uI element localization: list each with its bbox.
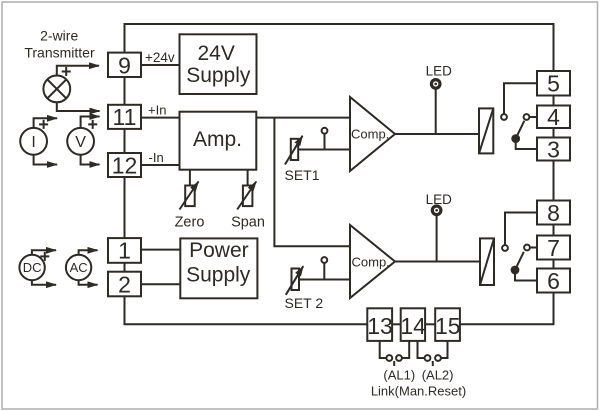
svg-text:13: 13 xyxy=(367,313,393,339)
wire 1 to 2 xyxy=(124,263,126,272)
potentiometer SET1 xyxy=(291,139,298,160)
wire LED2 stem xyxy=(436,216,438,262)
wire 5-4 link xyxy=(553,96,555,106)
block 24V Supply U1 xyxy=(180,34,257,94)
wire 8-7 link xyxy=(553,225,555,236)
relay coil K1 xyxy=(479,108,493,153)
svg-text:Zero: Zero xyxy=(175,215,205,231)
block Power Supply U3 xyxy=(180,238,257,298)
svg-text:Link(Man.Reset): Link(Man.Reset) xyxy=(371,384,466,399)
svg-text:Power: Power xyxy=(189,239,249,262)
terminal 3 xyxy=(537,138,570,161)
relay 1 contact to 4 xyxy=(524,114,530,120)
svg-text:Comp.: Comp. xyxy=(351,126,389,141)
terminal 4 xyxy=(537,106,570,129)
transmitter + sign xyxy=(62,67,71,76)
V + sign xyxy=(88,120,97,129)
wire branch to comparator 2 xyxy=(274,118,350,247)
switch AL1 under 13/14 xyxy=(380,341,387,358)
potentiometer Span xyxy=(247,170,249,186)
terminal 9 xyxy=(108,53,141,77)
relay coil K2 xyxy=(480,238,494,285)
block Amp U2 xyxy=(180,112,257,170)
svg-text:12: 12 xyxy=(112,152,138,178)
svg-text:7: 7 xyxy=(547,235,560,261)
I + sign xyxy=(39,120,48,129)
terminal 5 xyxy=(537,71,570,96)
svg-text:SET1: SET1 xyxy=(285,167,320,183)
svg-text:V: V xyxy=(75,134,86,151)
svg-text:LED: LED xyxy=(426,64,453,79)
wire 15 to terminal 6 xyxy=(460,293,554,325)
voltage source V xyxy=(67,128,94,155)
svg-text:DC: DC xyxy=(23,260,42,275)
terminal 12 xyxy=(108,153,141,177)
AC source xyxy=(66,255,91,280)
LED1 xyxy=(430,78,442,90)
terminal 13 xyxy=(367,308,392,341)
svg-text:11: 11 xyxy=(113,104,137,130)
svg-text:(AL1): (AL1) xyxy=(383,368,415,383)
terminal 8 xyxy=(537,201,570,225)
svg-text:4: 4 xyxy=(547,104,560,130)
relay 2 contact to 7 xyxy=(524,245,530,251)
wire bottom bus 2 to 13 xyxy=(125,296,368,324)
wire 1 to power supply xyxy=(141,249,180,251)
terminal 15 xyxy=(435,308,460,341)
node SET1 tap xyxy=(322,128,328,134)
svg-text:Span: Span xyxy=(231,215,265,231)
svg-text:Supply: Supply xyxy=(186,264,251,287)
potentiometer Zero xyxy=(189,170,191,186)
svg-text:AC: AC xyxy=(70,260,88,275)
svg-text:8: 8 xyxy=(547,200,560,226)
svg-text:-In: -In xyxy=(149,150,164,165)
terminal 2 xyxy=(108,272,141,297)
svg-text:Supply: Supply xyxy=(186,64,251,87)
svg-text:2-wire: 2-wire xyxy=(40,27,78,43)
DC + sign xyxy=(40,252,49,261)
wire 11 to 12 xyxy=(124,129,126,153)
svg-text:14: 14 xyxy=(400,313,426,339)
wire 13 to 14 xyxy=(392,323,401,325)
svg-text:24V: 24V xyxy=(198,42,235,65)
terminal 7 xyxy=(537,236,570,260)
relay 2 contact to 8 xyxy=(502,245,508,251)
svg-text:Comp.: Comp. xyxy=(352,255,390,270)
svg-text:2: 2 xyxy=(118,271,131,297)
relay 1 contact to 5 xyxy=(501,114,507,120)
wire comparator 1 output to relay 1 xyxy=(395,133,479,135)
wire 11 to Amp (+In) xyxy=(141,117,180,119)
wire top bus from terminal 9 to terminal 5 xyxy=(125,24,554,71)
svg-text:+24v: +24v xyxy=(145,50,175,65)
svg-text:Amp.: Amp. xyxy=(193,128,242,151)
svg-text:I: I xyxy=(31,134,35,151)
svg-text:6: 6 xyxy=(547,268,560,294)
LED2 xyxy=(431,204,443,216)
current source I xyxy=(20,128,47,155)
wire 12 to Amp (-In) xyxy=(141,164,180,166)
wire 12 to 1 xyxy=(124,177,126,238)
svg-text:LED: LED xyxy=(426,192,453,207)
2-wire transmitter symbol xyxy=(43,76,70,103)
node SET2 tap xyxy=(321,257,327,263)
wire comparator 2 output to relay 2 xyxy=(395,261,480,263)
svg-text:Transmitter: Transmitter xyxy=(24,45,95,61)
svg-text:5: 5 xyxy=(547,71,560,97)
terminal 11 xyxy=(108,105,141,129)
wire 4-3 link xyxy=(553,128,555,138)
relay 2 pole to 6 xyxy=(512,267,519,274)
wire 7-6 link xyxy=(553,260,555,269)
svg-text:3: 3 xyxy=(547,136,560,162)
svg-text:1: 1 xyxy=(118,238,131,264)
DC source xyxy=(19,255,44,280)
terminal 6 xyxy=(537,269,570,293)
svg-text:(AL2): (AL2) xyxy=(422,368,454,383)
potentiometer SET2 xyxy=(292,269,300,291)
wire Amp out to comparator 1 xyxy=(256,117,350,119)
svg-text:+In: +In xyxy=(148,103,166,118)
svg-text:SET 2: SET 2 xyxy=(285,295,324,311)
wire 3-8 link xyxy=(553,161,555,201)
terminal 1 xyxy=(108,238,141,263)
svg-text:15: 15 xyxy=(435,313,461,339)
terminal 14 xyxy=(401,308,425,341)
wire 14 to 15 xyxy=(425,323,435,325)
wire 2 to power supply xyxy=(141,283,180,285)
op-amp comparator 1 xyxy=(350,97,395,171)
wire LED1 stem xyxy=(435,90,437,135)
wire 9 to 24V supply xyxy=(141,64,180,66)
switch AL2 under 14/15 xyxy=(418,341,425,358)
svg-text:9: 9 xyxy=(118,52,131,78)
relay 1 pole to 3 xyxy=(512,135,519,142)
op-amp comparator 2 xyxy=(350,225,395,298)
wire 9 to 11 xyxy=(124,77,126,105)
